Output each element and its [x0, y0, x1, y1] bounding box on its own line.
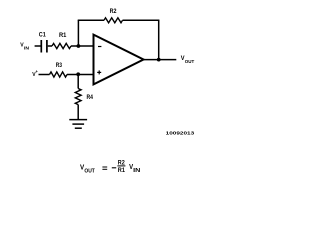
svg-text:C1: C1 — [39, 32, 46, 39]
svg-text:OUT: OUT — [185, 59, 195, 64]
svg-text:10092013: 10092013 — [166, 131, 195, 136]
svg-text:R3: R3 — [56, 62, 62, 69]
svg-text:R2: R2 — [110, 8, 117, 15]
svg-text:OUT: OUT — [84, 169, 95, 175]
svg-text:R4: R4 — [87, 94, 94, 101]
svg-text:R1: R1 — [118, 167, 126, 174]
svg-text:IN: IN — [133, 168, 140, 174]
svg-text:+: + — [36, 69, 39, 74]
svg-text:R2: R2 — [118, 159, 125, 166]
svg-text:R1: R1 — [59, 32, 67, 39]
svg-text:IN: IN — [24, 45, 29, 50]
